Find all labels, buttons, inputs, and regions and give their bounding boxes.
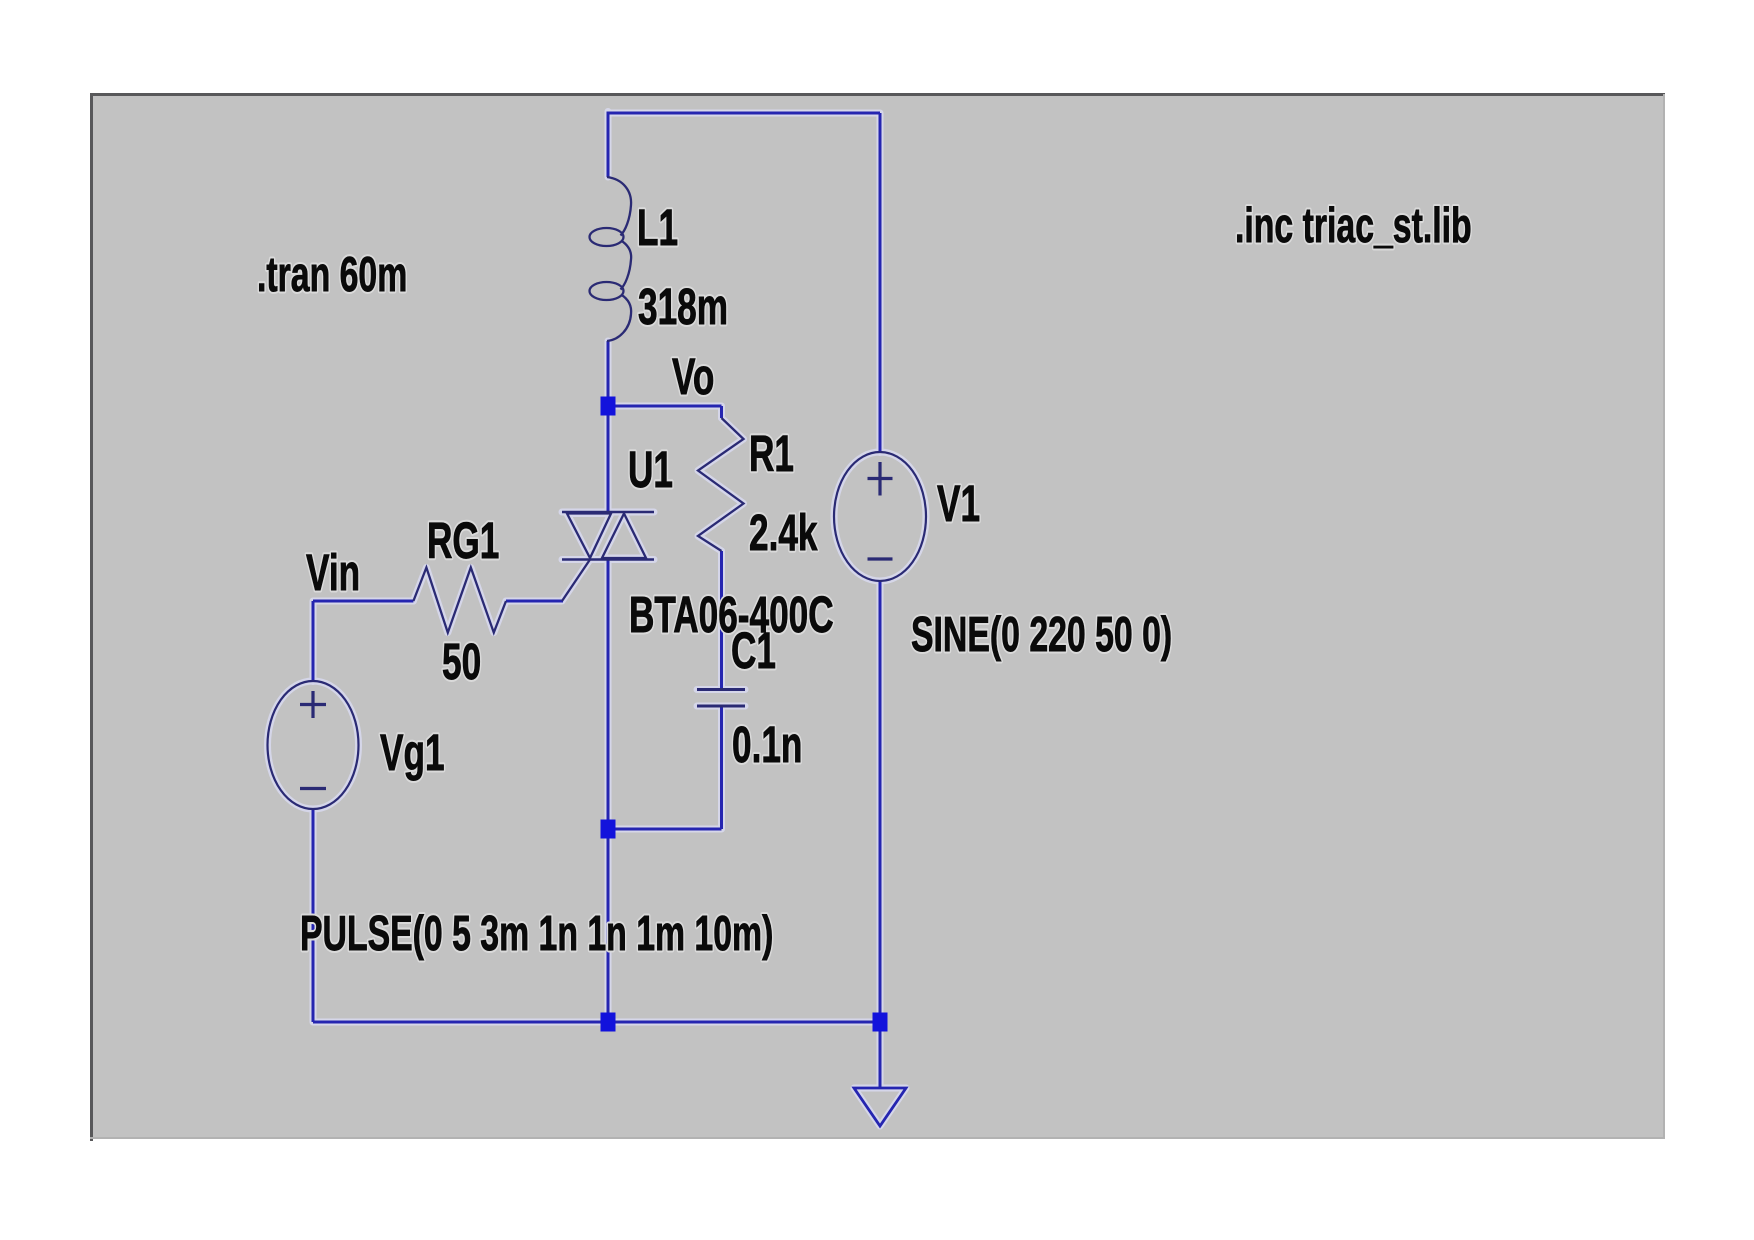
- svg-text:50: 50: [442, 634, 481, 691]
- svg-text:2.4k: 2.4k: [749, 505, 818, 562]
- svg-text:V1: V1: [937, 476, 980, 533]
- svg-text:Vin: Vin: [306, 545, 360, 602]
- svg-text:PULSE(0 5 3m 1n 1n 1m 10m): PULSE(0 5 3m 1n 1n 1m 10m): [300, 906, 773, 961]
- svg-text:0.1n: 0.1n: [732, 717, 802, 774]
- svg-text:L1: L1: [637, 200, 678, 257]
- svg-text:RG1: RG1: [427, 513, 499, 570]
- svg-text:Vo: Vo: [672, 349, 714, 406]
- svg-text:C1: C1: [731, 623, 776, 680]
- svg-text:318m: 318m: [638, 279, 728, 336]
- svg-text:.tran 60m: .tran 60m: [257, 247, 407, 302]
- svg-text:Vg1: Vg1: [380, 725, 445, 782]
- svg-text:.inc triac_st.lib: .inc triac_st.lib: [1235, 198, 1472, 253]
- svg-text:R1: R1: [749, 426, 794, 483]
- svg-text:U1: U1: [628, 442, 673, 499]
- svg-text:SINE(0 220 50 0): SINE(0 220 50 0): [911, 607, 1172, 662]
